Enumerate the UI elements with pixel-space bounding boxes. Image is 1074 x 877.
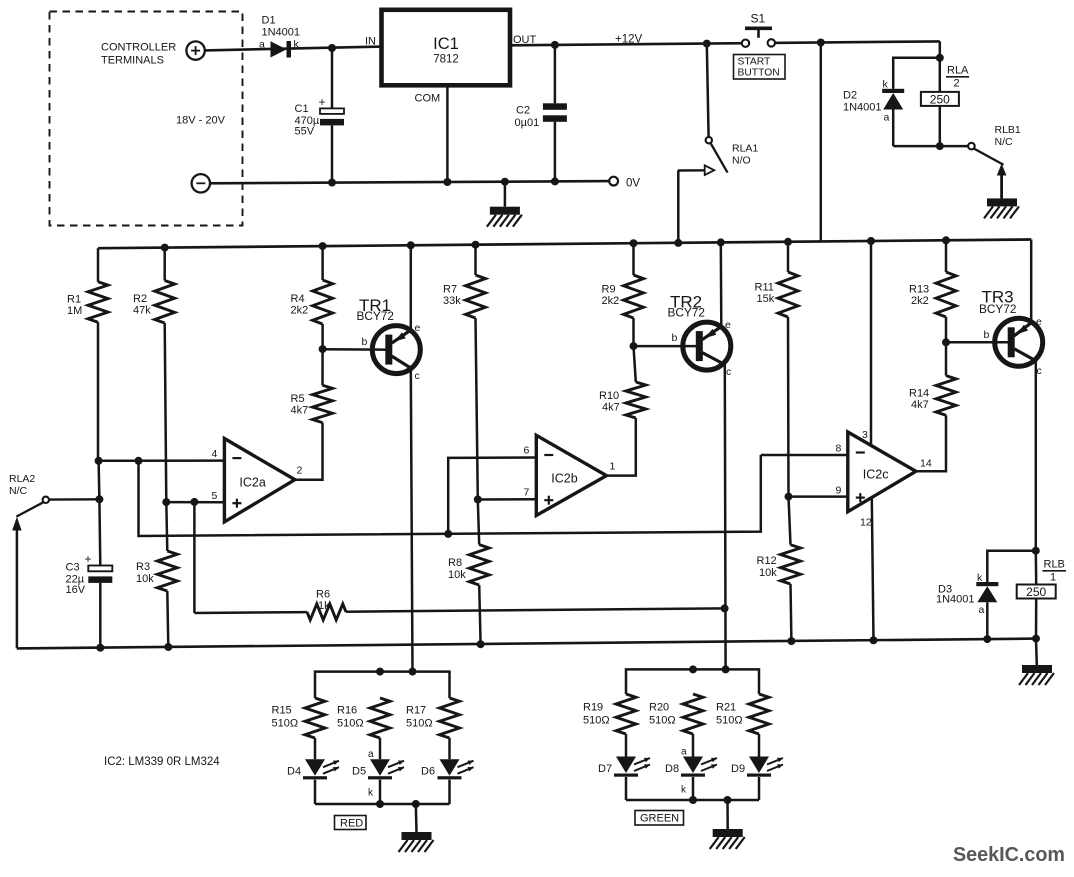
svg-text:R9: R9 (602, 284, 616, 296)
ground green group (710, 800, 745, 849)
svg-text:510Ω: 510Ω (272, 718, 299, 730)
resistor R21 (749, 694, 769, 757)
node TR1 emitter rail (407, 241, 415, 249)
node R8 bottom (477, 640, 485, 648)
resistor R4 (313, 246, 333, 349)
svg-text:9: 9 (836, 485, 842, 497)
label RLA2 N/C (9, 473, 35, 497)
wire RLA1 column (707, 44, 709, 137)
svg-text:R1: R1 (67, 294, 81, 306)
svg-text:7812: 7812 (433, 54, 459, 66)
wire red group bottom rail (315, 803, 450, 806)
svg-text:IC1: IC1 (433, 35, 459, 53)
label D1 1N4001 (262, 15, 301, 39)
svg-text:BUTTON: BUTTON (738, 68, 780, 79)
svg-text:1: 1 (610, 461, 616, 473)
node D3 anode rail (983, 635, 991, 643)
terminal 0V (609, 177, 618, 186)
svg-text:510Ω: 510Ω (716, 715, 743, 727)
svg-text:START: START (738, 57, 772, 68)
svg-text:R12: R12 (757, 555, 777, 567)
transistor TR2 (683, 322, 731, 370)
resistor R14 (936, 342, 956, 415)
node R7 top (472, 241, 480, 249)
label R3 10k (136, 561, 154, 585)
node C2 top (551, 41, 559, 49)
node COM bottom (443, 178, 451, 186)
svg-text:IN: IN (365, 36, 376, 48)
node TR3 collector junction (1032, 547, 1040, 555)
svg-text:k: k (883, 79, 889, 91)
svg-text:b: b (362, 336, 368, 348)
svg-text:IC2b: IC2b (551, 472, 577, 486)
label R16 510 (337, 705, 364, 730)
wire IC2b plus input (478, 498, 537, 501)
resistor R10 (626, 346, 646, 418)
svg-text:IC2a: IC2a (239, 476, 265, 490)
contact RLA2 N/C (12, 497, 49, 649)
node C2 bottom (551, 177, 559, 185)
svg-text:R4: R4 (291, 293, 305, 305)
node ramp bus tap a (135, 457, 143, 465)
svg-text:D5: D5 (352, 766, 366, 778)
contact RLA1 N/O (678, 137, 728, 175)
svg-text:C1: C1 (295, 103, 309, 115)
wire COM lead (446, 85, 449, 182)
resistor R15 (305, 698, 325, 759)
svg-text:RED: RED (340, 818, 363, 830)
wire TR3 emitter column (1030, 240, 1033, 323)
label RED box (335, 816, 367, 830)
label D3 1N4001 (936, 584, 975, 606)
svg-text:D1: D1 (262, 15, 276, 27)
svg-text:R13: R13 (909, 284, 929, 296)
op-amp IC2c (848, 432, 916, 512)
svg-text:BCY72: BCY72 (668, 305, 705, 319)
label START BUTTON box (734, 55, 786, 80)
svg-text:e: e (1036, 316, 1042, 328)
label R17 510 (406, 705, 433, 730)
regulator IC1 box (382, 10, 511, 86)
svg-text:1N4001: 1N4001 (843, 102, 882, 114)
wire comparator supply rail (98, 240, 1031, 249)
svg-text:10k: 10k (448, 569, 466, 581)
wire relay drop (939, 41, 942, 92)
wire IC2a output (295, 423, 323, 480)
svg-text:250: 250 (930, 92, 950, 106)
svg-text:TERMINALS: TERMINALS (101, 55, 164, 67)
node R16 top (376, 668, 384, 676)
svg-text:R11: R11 (755, 282, 774, 294)
svg-text:c: c (1037, 365, 1042, 377)
node pin3 rail (867, 237, 875, 245)
svg-text:R5: R5 (291, 393, 305, 405)
svg-text:D7: D7 (598, 763, 612, 775)
node IC2b minus bus tap (444, 530, 452, 538)
svg-text:0V: 0V (626, 178, 640, 190)
label CONTROLLER TERMINALS (101, 42, 176, 67)
svg-text:10k: 10k (759, 567, 777, 579)
label R15 510 (272, 705, 299, 730)
node pin12 bottom (870, 636, 878, 644)
svg-text:R19: R19 (583, 702, 603, 714)
svg-text:b: b (984, 329, 990, 341)
diode D1 (271, 41, 292, 58)
wire TR3 collector column (1035, 361, 1038, 551)
wire IC2a minus input (99, 459, 225, 462)
node R11 top (784, 238, 792, 246)
resistor R9 (624, 243, 644, 346)
wire 0V line (210, 181, 609, 183)
label RLB1 N/C (995, 124, 1021, 148)
wire TR3 base (946, 341, 1008, 344)
svg-text:1k: 1k (318, 600, 330, 612)
LED D7 (614, 757, 650, 801)
svg-text:2: 2 (297, 465, 303, 477)
resistor R7 (466, 245, 486, 500)
svg-text:a: a (979, 604, 985, 616)
wire D3 branch top (987, 551, 1036, 582)
resistor R2 (155, 248, 175, 503)
node TR3 base junction (942, 338, 950, 346)
svg-text:8: 8 (836, 443, 842, 455)
node RLA2 junction (95, 495, 103, 503)
resistor R1 (88, 248, 108, 461)
svg-text:N/C: N/C (9, 485, 28, 497)
wire ground rail (17, 639, 1036, 649)
label R8 10k (448, 557, 466, 581)
svg-text:510Ω: 510Ω (406, 718, 433, 730)
svg-text:1: 1 (1050, 572, 1056, 584)
svg-text:R16: R16 (337, 705, 357, 717)
node R4 top (319, 242, 327, 250)
svg-text:4k7: 4k7 (911, 399, 929, 411)
wire RLA1 to rail (677, 171, 680, 243)
svg-text:+12V: +12V (615, 33, 643, 45)
svg-text:+: + (319, 95, 326, 109)
op-amp IC2b (536, 435, 606, 515)
svg-text:SeekIC.com: SeekIC.com (953, 843, 1065, 866)
svg-text:c: c (726, 366, 731, 378)
svg-text:e: e (725, 319, 731, 331)
node C3 bottom (96, 644, 104, 652)
svg-text:BCY72: BCY72 (979, 302, 1016, 316)
transistor TR1 (372, 326, 420, 374)
svg-text:C2: C2 (516, 105, 530, 117)
svg-text:1N4001: 1N4001 (936, 594, 975, 606)
node TR1 base junction (319, 345, 327, 353)
svg-text:k: k (294, 39, 300, 51)
label R14 4k7 (909, 388, 929, 412)
node R7 plus wire (474, 496, 482, 504)
label C3 22u 16V (66, 552, 92, 596)
svg-text:47k: 47k (133, 305, 151, 317)
wire IC2a plus input (166, 501, 224, 504)
svg-text:IC2: LM339 0R LM324: IC2: LM339 0R LM324 (104, 756, 220, 768)
relay coil RLB 250 (1017, 551, 1056, 639)
svg-text:D9: D9 (731, 763, 745, 775)
terminal plus (186, 41, 204, 59)
svg-text:BCY72: BCY72 (357, 309, 394, 323)
svg-text:CONTROLLER: CONTROLLER (101, 42, 176, 54)
node R11 plus wire (785, 493, 793, 501)
resistor R8 (469, 500, 489, 645)
LED D8 (681, 757, 717, 801)
svg-text:D2: D2 (843, 90, 857, 102)
wire IC2b minus input (448, 458, 536, 534)
svg-text:R7: R7 (443, 284, 457, 296)
svg-text:RLB1: RLB1 (995, 124, 1021, 136)
node C1 bottom (328, 179, 336, 187)
svg-text:C3: C3 (66, 562, 80, 574)
node RLA1 column top (703, 40, 711, 48)
svg-text:4: 4 (212, 448, 218, 460)
svg-text:a: a (681, 747, 687, 758)
node R6 to TR2 collector (721, 604, 729, 612)
node RLA1 rail junction (674, 239, 682, 247)
node ground junction (501, 178, 509, 186)
label R4 2k2 (291, 293, 309, 317)
wire IC2c plus input (789, 495, 848, 498)
label RLA 2 (946, 65, 969, 90)
label R2 47k (133, 293, 151, 317)
svg-text:510Ω: 510Ω (649, 715, 676, 727)
label R13 2k2 (909, 284, 929, 308)
LED D5 (368, 759, 404, 804)
diode D2 (882, 89, 904, 146)
node red ground feed (412, 800, 420, 808)
ground under IC1 (487, 182, 522, 227)
wire D2 branch bottom (893, 145, 940, 148)
svg-text:16V: 16V (66, 584, 86, 596)
switch S1 push button (742, 28, 775, 47)
svg-text:55V: 55V (295, 126, 315, 138)
wire IC2c pin3 supply (870, 241, 873, 446)
svg-text:+: + (85, 552, 92, 566)
wire plus terminal to IN (205, 47, 383, 51)
svg-text:N/O: N/O (732, 155, 751, 167)
label R1 1M (67, 294, 82, 318)
wire D2 branch top (893, 58, 940, 89)
wire TR1 emitter column (410, 245, 413, 330)
svg-text:R21: R21 (716, 702, 736, 714)
wire RLA2 to column (49, 498, 100, 501)
node green feed (722, 665, 730, 673)
terminal minus (192, 174, 210, 192)
svg-text:14: 14 (920, 458, 932, 470)
svg-text:R6: R6 (316, 589, 330, 601)
wire +12V rail (510, 41, 940, 45)
svg-text:2: 2 (954, 78, 960, 90)
resistor R3 (157, 502, 177, 647)
svg-text:5: 5 (212, 490, 218, 502)
svg-text:510Ω: 510Ω (337, 718, 364, 730)
node R12 bottom (787, 637, 795, 645)
label R5 4k7 (291, 393, 309, 417)
wire ramp bus drop (139, 455, 761, 536)
wire IC2c output (916, 415, 946, 471)
wire TR2 collector column (724, 365, 727, 670)
node R3 bottom (164, 643, 172, 651)
node D8 bottom (689, 796, 697, 804)
wire feed column (820, 43, 823, 242)
svg-text:7: 7 (524, 487, 530, 499)
svg-text:k: k (977, 572, 983, 584)
svg-text:R14: R14 (909, 388, 929, 400)
node R1 minus wire (95, 457, 103, 465)
svg-text:a: a (368, 749, 374, 760)
wire R6 drop (193, 502, 196, 613)
svg-text:N/C: N/C (995, 136, 1014, 148)
svg-text:e: e (415, 322, 421, 334)
svg-text:D8: D8 (665, 763, 679, 775)
ground RLB (1019, 639, 1054, 685)
label RLA1 N/O (732, 143, 758, 167)
label R11 15k (755, 282, 775, 306)
wire TR1 base (323, 348, 386, 351)
resistor R19 (616, 694, 636, 757)
svg-text:b: b (672, 332, 678, 344)
op-amp IC2a (224, 439, 295, 522)
label C2 0u01 (515, 105, 540, 129)
resistor R11 (778, 242, 798, 497)
svg-text:a: a (259, 39, 265, 51)
wire relay to RLB1 (940, 145, 968, 148)
svg-text:R20: R20 (649, 702, 669, 714)
node relay branch (936, 54, 944, 62)
label GREEN box (635, 811, 684, 826)
svg-text:R8: R8 (448, 557, 462, 569)
svg-text:1M: 1M (67, 305, 82, 317)
node RLB bottom (1032, 635, 1040, 643)
svg-text:R17: R17 (406, 705, 426, 717)
svg-text:4k7: 4k7 (291, 405, 309, 417)
transistor TR3 (995, 318, 1043, 366)
node junction C1 top (328, 44, 336, 52)
node TR2 base junction (630, 342, 638, 350)
wire IC2c pin12 (872, 499, 874, 641)
label TR2 BCY72 (668, 293, 705, 320)
svg-text:1N4001: 1N4001 (262, 27, 301, 39)
label RLB 1 (1043, 559, 1067, 584)
label C1 470u 55V (295, 95, 326, 138)
label R6 1k (316, 589, 330, 613)
capacitor C2 (543, 45, 567, 182)
svg-text:R2: R2 (133, 293, 147, 305)
svg-text:2k2: 2k2 (602, 295, 620, 307)
svg-text:c: c (415, 370, 420, 382)
svg-text:250: 250 (1026, 585, 1046, 599)
svg-text:R3: R3 (136, 561, 150, 573)
diode D3 (976, 582, 998, 639)
node TR2 emitter rail (717, 238, 725, 246)
svg-text:RLA1: RLA1 (732, 143, 758, 155)
wire IC2c minus input (761, 454, 848, 457)
node R6 tap (190, 498, 198, 506)
wire green group top rail (626, 669, 759, 694)
svg-text:0µ01: 0µ01 (515, 117, 540, 129)
wire IC2b output (607, 418, 636, 476)
resistor R17 (440, 698, 460, 759)
node R2 top (161, 244, 169, 252)
wire TR2 emitter column (720, 242, 723, 326)
label R9 2k2 (602, 284, 620, 308)
resistor R6 (194, 604, 724, 620)
controller terminals dashed box (50, 12, 243, 226)
wire R1 to RLA2 node (97, 461, 100, 500)
label R10 4k7 (599, 390, 620, 414)
node R20 top (689, 665, 697, 673)
svg-text:D4: D4 (287, 766, 301, 778)
label R12 10k (757, 555, 778, 579)
resistor R13 (936, 240, 956, 342)
svg-text:a: a (884, 112, 890, 124)
label TR1 BCY72 (357, 296, 394, 323)
svg-text:COM: COM (415, 93, 441, 105)
node red feed (409, 668, 417, 676)
wire TR1 collector column (411, 368, 413, 671)
svg-text:D6: D6 (421, 766, 435, 778)
node relay bottom junction (936, 142, 944, 150)
LED D4 (303, 759, 339, 804)
label R21 510 (716, 702, 743, 727)
resistor R16 (370, 698, 390, 759)
label R20 510 (649, 702, 676, 727)
node R9 top (630, 239, 638, 247)
svg-text:S1: S1 (751, 12, 766, 26)
svg-text:33k: 33k (443, 295, 461, 307)
LED D9 (747, 757, 783, 801)
svg-text:RLB: RLB (1044, 559, 1065, 571)
svg-text:R10: R10 (599, 390, 619, 402)
label R19 510 (583, 702, 610, 727)
node D5 bottom (376, 800, 384, 808)
LED D6 (438, 759, 474, 804)
contact RLB1 N/C (968, 143, 1006, 199)
label R7 33k (443, 284, 461, 308)
svg-text:4k7: 4k7 (602, 402, 620, 414)
capacitor C1 (320, 48, 344, 183)
node R2 plus wire (162, 498, 170, 506)
ground RLB1 (987, 198, 1017, 206)
node feed column top (817, 39, 825, 47)
resistor R20 (683, 694, 703, 757)
label TR3 BCY72 (979, 288, 1016, 317)
svg-text:12: 12 (860, 517, 872, 529)
svg-text:510Ω: 510Ω (583, 715, 610, 727)
ground red group (399, 804, 434, 852)
node green ground feed (724, 796, 732, 804)
svg-text:2k2: 2k2 (911, 295, 929, 307)
resistor R5 (313, 349, 333, 423)
relay coil RLA 250 (921, 92, 959, 146)
wire red group top rail (315, 672, 450, 698)
node R13 top (942, 236, 950, 244)
svg-text:15k: 15k (757, 293, 775, 305)
capacitor C3 (88, 499, 112, 647)
svg-text:R15: R15 (272, 705, 292, 717)
label D2 1N4001 (843, 90, 882, 114)
svg-text:18V - 20V: 18V - 20V (176, 115, 226, 127)
resistor R12 (781, 497, 801, 641)
wire green group bottom rail (626, 799, 759, 802)
svg-text:3: 3 (862, 429, 868, 441)
svg-text:GREEN: GREEN (640, 813, 679, 825)
svg-text:IC2c: IC2c (863, 467, 889, 481)
svg-text:10k: 10k (136, 573, 154, 585)
svg-text:RLA2: RLA2 (9, 473, 35, 485)
svg-text:RLA: RLA (947, 65, 969, 77)
